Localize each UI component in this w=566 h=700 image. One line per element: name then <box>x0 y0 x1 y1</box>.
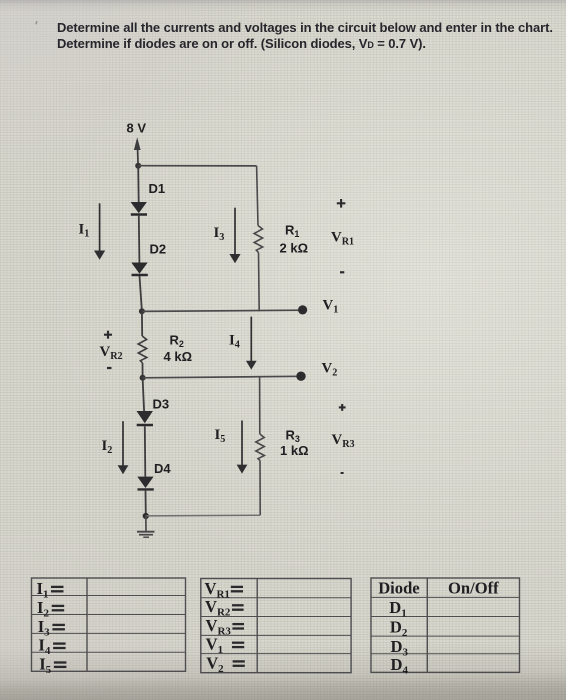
node A (top junction) <box>135 163 141 169</box>
current arrow I2 <box>118 421 129 474</box>
svg-text:I5: I5 <box>215 427 226 445</box>
node V1 (dot) <box>298 305 307 314</box>
svg-text:On/Off: On/Off <box>448 579 499 598</box>
node at left of V2 rail <box>140 375 146 381</box>
label - (VR3 polarity) <box>341 472 344 474</box>
svg-text:V2: V2 <box>322 361 338 379</box>
supply arrow (8V source) <box>134 137 141 166</box>
wire: bottom horizontal <box>146 514 260 517</box>
table: currents (I1-I5) <box>32 578 186 671</box>
wire: D2 to node V1 <box>140 276 142 311</box>
node at left of V1 rail <box>139 308 145 314</box>
stray pen tick <box>35 21 37 24</box>
svg-text:D2: D2 <box>150 242 167 257</box>
ground node (dot) <box>143 513 149 519</box>
resistor R2 <box>138 336 147 363</box>
diode D3 <box>137 411 154 425</box>
table: voltages (VR1..V2) <box>201 579 351 673</box>
label - (VR1 polarity) <box>340 271 344 273</box>
svg-text:Diode: Diode <box>378 579 419 598</box>
svg-text:8 V: 8 V <box>127 121 147 136</box>
diode D2 <box>131 263 148 276</box>
svg-text:VR2: VR2 <box>100 344 123 362</box>
table: diode on/off <box>371 578 520 672</box>
resistor R3 <box>256 434 265 461</box>
svg-text:R2: R2 <box>170 333 184 350</box>
wire: V1 horizontal rail <box>142 310 303 311</box>
label + (VR3 polarity) <box>339 404 346 411</box>
node V2 (dot) <box>296 372 305 381</box>
wire: R1 branch upper <box>257 166 258 226</box>
wire: R1 branch lower <box>258 253 261 312</box>
title text <box>57 20 562 53</box>
svg-text:I5: I5 <box>39 654 51 676</box>
wire: D1 to D2 <box>138 216 141 263</box>
wire: D3 to D4 <box>144 426 147 476</box>
svg-text:V1: V1 <box>323 298 339 316</box>
diode D4 <box>137 477 154 490</box>
ground <box>137 516 155 537</box>
wire: R2 to node V2 <box>142 363 144 378</box>
svg-text:VR3: VR3 <box>332 432 355 450</box>
label + (VR1 polarity) <box>337 199 346 208</box>
label + (VR2 polarity) <box>104 331 112 339</box>
svg-text:VR1: VR1 <box>331 230 354 248</box>
svg-text:I2: I2 <box>102 438 113 456</box>
wire: D4 to ground node <box>145 491 147 516</box>
svg-text:V2: V2 <box>206 653 224 675</box>
svg-text:R1: R1 <box>285 223 299 240</box>
wire: R3 branch upper <box>259 378 261 435</box>
current arrow I5 <box>237 421 248 474</box>
svg-text:1 kΩ: 1 kΩ <box>280 443 309 458</box>
diode D1 <box>131 202 147 215</box>
wire: top horizontal <box>138 165 256 167</box>
wire: R3 branch lower <box>259 461 261 516</box>
svg-text:2 kΩ: 2 kΩ <box>280 240 309 255</box>
label - (VR2 polarity) <box>107 367 112 369</box>
svg-text:D4: D4 <box>154 461 171 476</box>
svg-text:D2: D2 <box>390 618 408 640</box>
wire: left main top (node A to D1) <box>137 166 140 203</box>
resistor R1 <box>254 226 263 253</box>
svg-text:D1: D1 <box>149 181 166 196</box>
svg-text:R3: R3 <box>286 428 300 445</box>
wire: D3 feed (V2 node down) <box>143 378 145 412</box>
wire: V1 node to R2 <box>141 311 143 336</box>
svg-text:I3: I3 <box>214 225 225 243</box>
svg-text:4 kΩ: 4 kΩ <box>164 349 193 364</box>
wire: V2 horizontal rail <box>143 376 301 378</box>
current arrow I4 <box>246 317 257 370</box>
svg-text:I1: I1 <box>79 222 90 240</box>
current arrow I1 <box>94 203 105 259</box>
current arrow I3 <box>229 208 240 264</box>
svg-text:D3: D3 <box>153 397 170 412</box>
svg-text:I4: I4 <box>229 333 240 351</box>
svg-text:D4: D4 <box>391 655 409 677</box>
svg-text:D1: D1 <box>389 598 406 620</box>
